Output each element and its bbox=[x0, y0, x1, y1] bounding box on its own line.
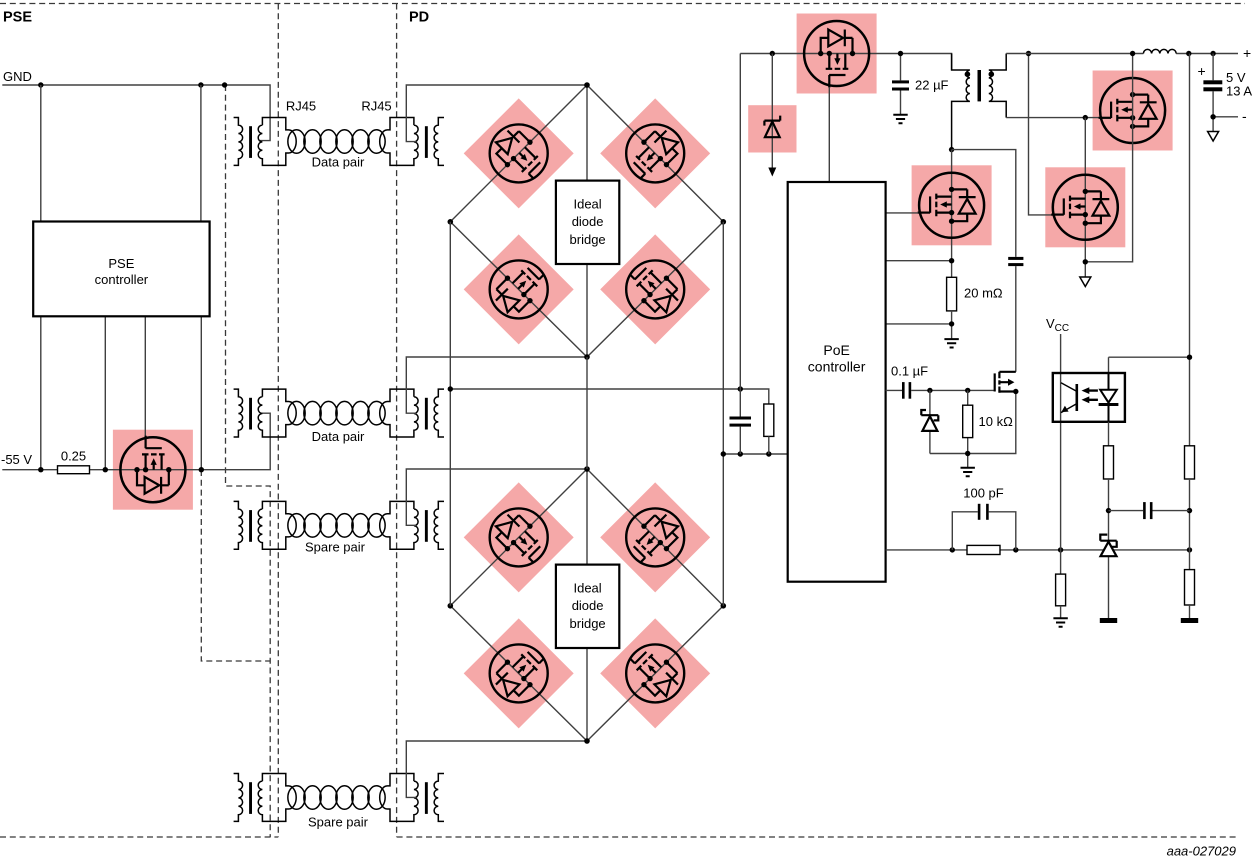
svg-text:RJ45: RJ45 bbox=[286, 99, 316, 114]
RJ45 transformer data pair 1 PSE side bbox=[234, 118, 297, 166]
transformer phase dot secondary bbox=[989, 71, 995, 77]
svg-text:Data pair: Data pair bbox=[312, 155, 365, 170]
RJ45 transformer data pair 2 PSE side bbox=[234, 389, 297, 437]
svg-text:GND: GND bbox=[3, 69, 32, 84]
twisted pair loops spare pair 1 bbox=[288, 514, 385, 538]
svg-text:Spare pair: Spare pair bbox=[305, 540, 366, 555]
wire opto LED to bias resistor bbox=[1108, 422, 1110, 446]
node dot Vcc junction bbox=[1058, 547, 1063, 552]
svg-text:-: - bbox=[1242, 108, 1247, 124]
wire opto LED feed from output bbox=[1109, 54, 1190, 446]
resistor lower divider bbox=[1185, 570, 1195, 605]
svg-text:PSE: PSE bbox=[3, 10, 32, 26]
node dot after inductor bbox=[1186, 51, 1191, 56]
inner dashed boundary from -55V node bbox=[201, 470, 270, 661]
resistor 10 kOhm bbox=[967, 390, 969, 467]
node dot primary switch node bbox=[949, 147, 954, 152]
wire bridge left vertices vertical bbox=[449, 222, 451, 606]
resistor opto LED bias bbox=[1104, 446, 1114, 479]
node dot GND pin1 bbox=[38, 82, 43, 87]
wire spare pair 1 PD tap to bridge2 top bbox=[406, 469, 587, 525]
node dot GND boundary bbox=[222, 82, 227, 87]
ideal diode bridge 1 bbox=[448, 82, 727, 360]
node dot feedback at divider bbox=[1187, 547, 1192, 552]
twisted pair loops data pair 1 bbox=[288, 130, 385, 154]
RJ45 transformer spare pair 2 PSE side bbox=[234, 774, 297, 822]
wire catch MOSFET drain riser bbox=[1084, 118, 1086, 277]
node dot 10k bottom bbox=[965, 451, 970, 456]
input rail wire bbox=[740, 54, 951, 81]
wire GND to PSE controller bbox=[41, 85, 201, 222]
svg-text:aaa-027029: aaa-027029 bbox=[1167, 844, 1236, 859]
resistor Vcc bias bbox=[1056, 574, 1066, 606]
highlight square TVS diode bbox=[748, 105, 796, 152]
input bulk capacitor bbox=[730, 417, 752, 420]
wire bridge1 bottom to bridge2 top bbox=[586, 357, 588, 469]
svg-text:20 mΩ: 20 mΩ bbox=[964, 286, 1003, 301]
svg-text:10 kΩ: 10 kΩ bbox=[979, 414, 1014, 429]
svg-text:+: + bbox=[1198, 63, 1206, 79]
node dot feedback right of resistor bbox=[1013, 547, 1018, 552]
highlight square catch sync MOSFET bbox=[1045, 167, 1125, 247]
feedback bus wire bbox=[886, 549, 1190, 551]
RJ45 transformer data pair 2 PD side bbox=[380, 389, 444, 437]
wire secondary winding to forward sync MOSFET gate bbox=[1006, 117, 1099, 119]
node dot zener tap bbox=[927, 388, 932, 393]
capacitor 0.1uF bbox=[902, 382, 905, 399]
node dot sense top bbox=[949, 258, 954, 263]
output ground arrow bbox=[1208, 132, 1219, 142]
PoE controller U2 bbox=[788, 182, 886, 582]
wire VDD riser to input rail bbox=[739, 54, 741, 455]
node dot output cap tap bbox=[1210, 51, 1215, 56]
wire PSE controller outputs bbox=[41, 316, 202, 469]
-55V rail wire bbox=[2, 413, 270, 470]
svg-text:Data pair: Data pair bbox=[312, 429, 365, 444]
RJ45 transformer spare pair 1 PD side bbox=[380, 501, 444, 549]
node dot GND pin2 bbox=[198, 82, 203, 87]
catch sync rectifier MOSFET bbox=[1051, 175, 1118, 240]
wire divider mid bbox=[1189, 479, 1191, 570]
ground bar TL431 bbox=[1100, 618, 1117, 623]
svg-text:PoE: PoE bbox=[823, 342, 849, 358]
wire VDD rail bridge outputs bbox=[450, 389, 769, 404]
resistor 20 mOhm bbox=[947, 277, 957, 311]
TL431 shunt reference bbox=[1100, 535, 1116, 557]
svg-text:100 pF: 100 pF bbox=[963, 486, 1004, 501]
wire bridge right vertices vertical bbox=[722, 222, 724, 606]
svg-text:VCC: VCC bbox=[1046, 316, 1069, 334]
node dot LED feed bbox=[1187, 355, 1192, 360]
hot-swap pass MOSFET bbox=[804, 21, 869, 88]
wire data pair 1 PD tap to bridge1 top bbox=[406, 85, 587, 142]
node dot return at bulk cap bbox=[738, 451, 743, 456]
wire Vcc branch bbox=[1060, 334, 1062, 574]
ground bar divider bbox=[1181, 618, 1198, 623]
output inductor bbox=[1143, 49, 1176, 53]
flyback transformer T1 bbox=[952, 54, 970, 150]
PD region dashed border bbox=[397, 4, 1236, 838]
wire pass MOSFET gate to PoE controller bbox=[828, 87, 830, 182]
svg-text:-55 V: -55 V bbox=[1, 452, 32, 467]
wire sync sources to secondary ground bbox=[1085, 54, 1132, 262]
svg-text:+: + bbox=[1243, 45, 1251, 61]
primary switching MOSFET bbox=[918, 173, 985, 238]
twisted pair loops data pair 2 bbox=[288, 401, 385, 425]
node dot forward MOSFET drain bbox=[1130, 51, 1135, 56]
wire spare pair 2 PD tap to bridge2 bottom bbox=[406, 741, 587, 797]
compensation capacitor bbox=[1109, 510, 1190, 512]
forward sync rectifier MOSFET bbox=[1099, 78, 1166, 143]
node dot VDD at bulk cap bbox=[738, 386, 743, 391]
wire data pair 2 PD tap to bridge1 bottom bbox=[406, 357, 587, 413]
output minus lead bbox=[1213, 117, 1238, 132]
node dot comp cap left bbox=[1106, 508, 1111, 513]
highlight square primary MOSFET bbox=[912, 165, 992, 245]
wire PoE controller to primary gate bbox=[886, 212, 919, 214]
node dot VDD at left vertical bbox=[448, 386, 453, 391]
node dot feedback left bbox=[950, 547, 955, 552]
TVS diode bbox=[771, 54, 773, 170]
node dot TVS tap bbox=[770, 51, 775, 56]
svg-text:PSE: PSE bbox=[108, 256, 134, 271]
node dot return at right vertical bbox=[721, 451, 726, 456]
ideal diode bridge 2 bbox=[448, 466, 727, 744]
node dot sync source junction bbox=[1083, 259, 1088, 264]
output rail wire bbox=[1006, 53, 1238, 55]
svg-text:controller: controller bbox=[808, 359, 866, 375]
node dot comp cap right bbox=[1187, 508, 1192, 513]
svg-text:RJ45: RJ45 bbox=[361, 99, 391, 114]
wire gate discharge node bbox=[930, 392, 1016, 454]
svg-text:Spare pair: Spare pair bbox=[308, 815, 369, 830]
node dot -55V pin2 bbox=[103, 467, 108, 472]
node dot sense bottom bbox=[949, 321, 954, 326]
node dot catch MOSFET drain bbox=[1083, 115, 1088, 120]
svg-text:PD: PD bbox=[409, 10, 429, 26]
capacitor 100 pF loop bbox=[952, 512, 1016, 550]
capacitor 22uF bbox=[892, 80, 909, 83]
resistor upper divider bbox=[1185, 446, 1195, 479]
output capacitor polarized bbox=[1212, 54, 1214, 117]
node dot 22uF tap bbox=[898, 51, 903, 56]
clamp capacitor on auxiliary branch bbox=[1008, 257, 1023, 260]
svg-text:22 µF: 22 µF bbox=[915, 78, 949, 93]
zener diode bbox=[929, 390, 931, 453]
series resistor in feedback bus bbox=[967, 545, 1000, 554]
twisted pair loops spare pair 2 bbox=[288, 786, 385, 810]
inner dashed boundary from GND node bbox=[226, 85, 271, 837]
RJ45 transformer data pair 1 PD side bbox=[380, 118, 444, 166]
wire sync gate bus from input rail bbox=[1029, 54, 1053, 215]
node dot return at resistor bbox=[766, 451, 771, 456]
highlight square hot-swap MOSFET bbox=[797, 14, 877, 94]
PSE controller U1 bbox=[33, 222, 209, 317]
wire return rail to PoE controller bbox=[723, 453, 787, 455]
node dot 10k tap bbox=[965, 388, 970, 393]
wire primary source to sense bbox=[886, 260, 952, 262]
node dot -55V pin1 bbox=[38, 467, 43, 472]
highlight square forward sync MOSFET bbox=[1093, 71, 1173, 151]
node dot sync gate bus bbox=[1026, 51, 1031, 56]
wire 0.1uF node bbox=[886, 389, 995, 391]
secondary ground arrow bbox=[1080, 277, 1091, 287]
RJ45 transformer spare pair 2 PD side bbox=[380, 774, 444, 822]
PSE disconnect MOSFET bbox=[120, 436, 185, 503]
highlight square PSE disconnect MOSFET bbox=[113, 430, 193, 510]
svg-text:0.1 µF: 0.1 µF bbox=[891, 364, 928, 379]
RJ45 transformer spare pair 1 PSE side bbox=[234, 501, 297, 549]
svg-text:controller: controller bbox=[95, 272, 149, 287]
svg-text:13 A: 13 A bbox=[1226, 84, 1252, 99]
GND rail wire bbox=[2, 85, 270, 141]
svg-text:0.25: 0.25 bbox=[61, 449, 86, 464]
transformer phase dot primary bbox=[965, 71, 971, 77]
wire LED branch to TL431 bbox=[1108, 479, 1110, 618]
node dot -55V pin4 bbox=[199, 467, 204, 472]
resistor 0.25 bbox=[58, 466, 90, 474]
input resistor bbox=[764, 404, 774, 436]
wire switch node to clamp branch bbox=[952, 150, 1016, 278]
optocoupler bbox=[1053, 373, 1125, 422]
small auxiliary MOSFET bbox=[995, 372, 1016, 393]
